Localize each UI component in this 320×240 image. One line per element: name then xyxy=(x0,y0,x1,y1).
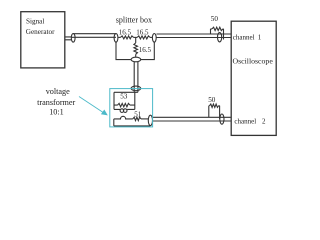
svg-text:1: 1 xyxy=(258,33,262,41)
coax connector right ellipse xyxy=(114,34,118,43)
wire between resistors xyxy=(134,36,138,38)
svg-text:voltage: voltage xyxy=(46,87,70,96)
transformer primary left wire xyxy=(113,92,115,109)
vertical coax bottom cap xyxy=(131,86,141,91)
coax cable 1 top line xyxy=(73,33,116,35)
resistor 16.5 left xyxy=(121,36,134,39)
oscilloscope box xyxy=(231,21,276,135)
svg-text:51: 51 xyxy=(134,111,142,119)
svg-text:16.5: 16.5 xyxy=(119,28,132,36)
signal generator box xyxy=(21,12,65,68)
channel 2 connector ellipse xyxy=(220,114,224,124)
svg-text:channel: channel xyxy=(233,33,255,41)
coax cable 1 center conductor xyxy=(71,36,116,38)
svg-text:Signal: Signal xyxy=(26,17,44,25)
transformer primary top wire xyxy=(114,91,138,93)
annotation arrow xyxy=(79,97,103,113)
secondary loop left wire xyxy=(113,119,115,126)
coax cable 3 to channel 2 lines xyxy=(153,117,231,121)
transformer primary right wire xyxy=(134,92,136,109)
primary winding turn 1 xyxy=(120,109,124,113)
secondary winding wire with single turn xyxy=(114,116,133,119)
resistor 53 xyxy=(114,103,135,106)
svg-text:50: 50 xyxy=(208,96,216,104)
resistor 16.5 right xyxy=(137,36,150,39)
wire vertical resistor to coax cap xyxy=(135,54,137,57)
wire splitter input xyxy=(118,36,120,38)
voltage transformer highlight box xyxy=(110,89,153,127)
channel 1 connector ellipse xyxy=(218,33,222,42)
svg-text:splitter box: splitter box xyxy=(116,15,152,24)
svg-text:16.5: 16.5 xyxy=(139,46,152,54)
primary winding leads xyxy=(114,108,135,110)
svg-text:channel: channel xyxy=(234,117,256,125)
wire splitter output xyxy=(150,36,152,38)
wire 51 to output connector xyxy=(141,118,148,120)
svg-text:16.5: 16.5 xyxy=(136,28,149,36)
svg-text:53: 53 xyxy=(120,93,128,101)
svg-text:Oscilloscope: Oscilloscope xyxy=(233,57,274,66)
primary winding turn 2 xyxy=(123,109,127,113)
svg-text:50: 50 xyxy=(211,15,219,23)
splitter output connector ellipse xyxy=(152,34,156,43)
svg-text:transformer: transformer xyxy=(37,98,75,107)
secondary loop bottom wire xyxy=(114,125,151,127)
resistor 50 channel 2 loop xyxy=(209,104,220,119)
wire splitter left ground drop xyxy=(116,42,131,60)
svg-text:Generator: Generator xyxy=(26,28,55,36)
resistor 51 xyxy=(133,117,141,120)
svg-text:10:1: 10:1 xyxy=(49,108,64,117)
coax connector left ellipse xyxy=(71,34,75,43)
wire junction to vertical resistor xyxy=(135,37,137,43)
annotation arrowhead xyxy=(101,110,108,116)
wire splitter right ground drop xyxy=(141,42,155,60)
transformer output connector ellipse xyxy=(148,115,152,125)
vertical coax top cap xyxy=(131,57,141,62)
vertical coax walls xyxy=(134,62,138,93)
svg-text:2: 2 xyxy=(262,117,266,125)
resistor 16.5 vertical xyxy=(134,43,138,54)
wire stub from generator xyxy=(65,37,72,40)
coax cable 2 to channel 1 lines xyxy=(157,34,231,38)
resistor 50 channel 1 loop xyxy=(211,27,224,39)
